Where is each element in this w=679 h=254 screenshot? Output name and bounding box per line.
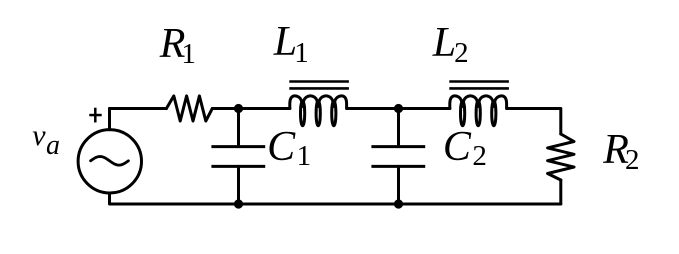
node junction dot top C1 [234,104,243,113]
capacitor C1 top lead [237,109,240,147]
node junction dot bottom C1 [234,199,243,208]
label C2 [443,126,487,171]
label L1 [274,21,309,68]
wire top rail L2 to corner down to R2 [507,109,561,135]
wire top rail L1 to L2 [347,107,450,110]
label C1 [267,126,311,171]
capacitor C2 bottom lead [397,166,400,204]
wire bottom rail [110,193,561,204]
capacitor C2 top lead [397,109,400,147]
label R1 [160,23,196,70]
wire R2 bottom to rail [559,180,562,204]
source va circle [78,130,141,193]
capacitor C1 bottom lead [237,166,240,204]
label R2 [603,129,639,176]
node junction dot top C2 [394,104,403,113]
source va sine symbol [91,157,129,166]
wire top rail left segment [110,107,167,110]
inductor L1 coil [290,96,347,126]
node junction dot bottom C2 [394,199,403,208]
inductor L1 core lines [289,82,349,89]
resistor R2 [548,134,574,180]
inductor L2 core lines [449,82,509,89]
capacitor C1 plates [211,147,265,167]
capacitor C2 plates [371,147,425,167]
wire source top stub [108,109,111,130]
wire top rail R1 to L1 [212,107,290,110]
resistor R1 [166,96,212,121]
inductor L2 coil [450,96,507,126]
label L2 [433,22,469,69]
source plus polarity sign [89,108,101,123]
label va [32,121,60,160]
